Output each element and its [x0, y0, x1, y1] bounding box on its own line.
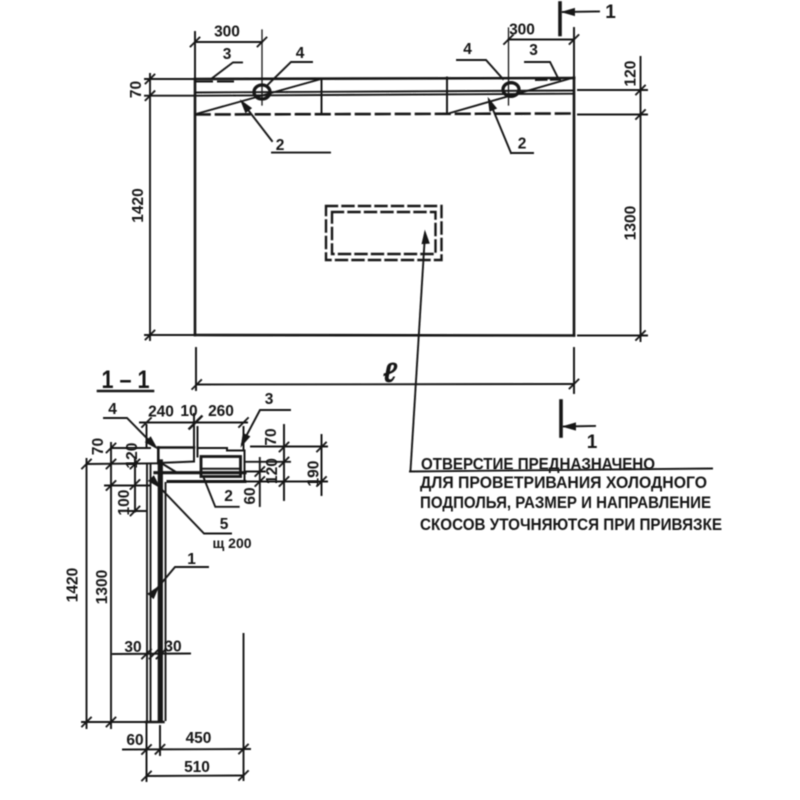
svg-text:120: 120 — [623, 61, 640, 87]
section label 4 — [104, 418, 158, 449]
dim 300 top-right — [504, 28, 579, 78]
section right dims — [246, 425, 327, 506]
svg-text:щ 200: щ 200 — [212, 535, 251, 551]
svg-text:4: 4 — [108, 401, 117, 418]
svg-text:ПОДПОЛЬЯ, РАЗМЕР И НАПРАВЛЕНИЕ: ПОДПОЛЬЯ, РАЗМЕР И НАПРАВЛЕНИЕ — [420, 493, 711, 512]
section flag middle — [561, 401, 595, 436]
wall bottom edge — [146, 721, 164, 723]
bevel diagonal left — [196, 79, 321, 114]
slab top bold line — [155, 471, 245, 474]
svg-text:1: 1 — [587, 432, 598, 453]
svg-text:300: 300 — [509, 22, 535, 39]
dim 70 / 1420 left — [145, 74, 195, 340]
section label 1 — [149, 567, 208, 598]
label 4 right — [457, 60, 503, 79]
section left dims — [82, 443, 158, 728]
section top dim line 240/10/260 — [140, 414, 248, 450]
dim line 1420 — [86, 459, 88, 728]
hole 4 right — [503, 83, 519, 97]
svg-text:5: 5 — [220, 516, 229, 533]
vent opening dashed rect inner — [332, 212, 436, 254]
dim 30/30 — [113, 650, 190, 659]
hole 4 left centerline — [261, 30, 263, 105]
svg-text:70: 70 — [128, 81, 145, 98]
bottom dims 60/450/510 — [123, 634, 250, 781]
svg-text:120: 120 — [124, 443, 141, 469]
section flag top — [560, 3, 599, 35]
svg-text:30: 30 — [124, 639, 141, 656]
hidden dash seg left — [197, 81, 234, 83]
svg-text:300: 300 — [214, 24, 240, 41]
svg-text:3: 3 — [265, 391, 274, 408]
dim line 60 — [259, 458, 261, 506]
vent channel inner line — [201, 468, 241, 470]
section label 5 — [149, 477, 231, 534]
dim line 190 — [321, 435, 323, 495]
svg-text:2: 2 — [224, 488, 233, 505]
dim line 70/120 — [283, 425, 285, 500]
hidden dash seg right — [536, 79, 560, 82]
svg-text:510: 510 — [184, 759, 210, 776]
dim 300 top-left — [191, 32, 267, 79]
svg-text:3: 3 — [529, 42, 538, 59]
wall core bold bar — [158, 462, 163, 720]
section profile: parapet lip — [158, 448, 194, 464]
slab bottom bold line — [168, 480, 245, 483]
section title underline — [98, 390, 153, 393]
extensions — [111, 447, 150, 449]
svg-text:СКОСОВ УТОЧНЯЮТСЯ ПРИ ПРИВЯЗКЕ: СКОСОВ УТОЧНЯЮТСЯ ПРИ ПРИВЯЗКЕ — [420, 515, 722, 534]
svg-text:120: 120 — [264, 458, 281, 484]
hole 4 left — [254, 85, 270, 99]
bevel boundary right — [446, 78, 448, 114]
label 4 left — [267, 62, 312, 86]
svg-text:1300: 1300 — [94, 570, 111, 604]
label 3 right — [525, 62, 558, 78]
svg-text:100: 100 — [116, 490, 133, 516]
svg-text:60: 60 — [242, 487, 259, 504]
wall outer face lines — [146, 465, 148, 723]
svg-text:1300: 1300 — [623, 206, 640, 240]
label 2 left — [240, 100, 330, 152]
vent channel bold rect — [201, 457, 241, 477]
hole 4 right centerline — [508, 28, 510, 105]
double edge line — [195, 91, 574, 93]
svg-text:1420: 1420 — [65, 568, 82, 602]
bevel diagonal right — [450, 78, 572, 113]
bevel boundary left — [321, 79, 323, 114]
svg-text:2: 2 — [518, 136, 527, 153]
svg-text:240: 240 — [148, 404, 174, 421]
svg-text:ℓ: ℓ — [383, 357, 398, 388]
vent opening dashed rect outer — [326, 206, 442, 260]
element 3 outline — [198, 448, 245, 482]
svg-text:60: 60 — [126, 732, 143, 749]
wall inner face line — [165, 483, 167, 720]
svg-text:70: 70 — [90, 438, 107, 455]
svg-text:450: 450 — [186, 730, 212, 747]
svg-text:260: 260 — [208, 403, 234, 420]
svg-text:2: 2 — [276, 137, 285, 154]
svg-text:ОТВЕРСТИЕ ПРЕДНАЗНАЧЕНО: ОТВЕРСТИЕ ПРЕДНАЗНАЧЕНО — [421, 455, 655, 474]
label 2 right — [486, 99, 533, 153]
svg-text:1: 1 — [187, 551, 196, 568]
svg-text:1: 1 — [605, 2, 616, 23]
leader from vent opening to note — [411, 234, 426, 471]
svg-text:3: 3 — [223, 46, 232, 63]
svg-text:4: 4 — [463, 41, 472, 58]
svg-text:1420: 1420 — [130, 188, 147, 222]
svg-text:10: 10 — [180, 403, 197, 420]
ledge slope — [162, 464, 175, 472]
dim 120 / 1300 right — [578, 57, 647, 341]
label 3 left — [211, 62, 242, 79]
svg-text:70: 70 — [263, 428, 280, 445]
note underline / shelf — [410, 469, 712, 472]
dim length bottom — [192, 348, 578, 393]
dim line 1300 / 70 — [110, 443, 112, 728]
dim line 120/100 — [134, 459, 136, 512]
svg-text:30: 30 — [164, 639, 181, 656]
svg-text:ДЛЯ ПРОВЕТРИВАНИЯ ХОЛОДНОГО: ДЛЯ ПРОВЕТРИВАНИЯ ХОЛОДНОГО — [420, 473, 707, 492]
svg-text:190: 190 — [306, 461, 323, 487]
section label 2 — [204, 479, 239, 507]
panel outline — [195, 78, 574, 336]
hidden dashed line — [196, 114, 574, 115]
svg-text:1 – 1: 1 – 1 — [102, 366, 150, 394]
section label 3 — [239, 410, 290, 446]
svg-text:4: 4 — [296, 45, 305, 62]
